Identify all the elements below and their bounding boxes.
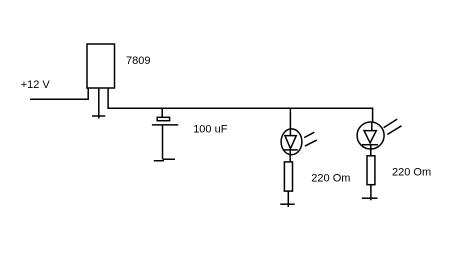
resistor R1 xyxy=(284,162,292,191)
LED D1 cathode bar xyxy=(283,149,298,151)
LED D1 light rays xyxy=(304,132,317,146)
svg-text:7809: 7809 xyxy=(126,55,150,67)
wire D1 cathode to R1 xyxy=(289,150,291,162)
wire U1 input pin 1 xyxy=(87,88,89,100)
wire capacitor C1 stub xyxy=(161,108,163,117)
voltage regulator U1 7809 body xyxy=(87,44,115,88)
ground R2 xyxy=(362,197,378,199)
svg-text:+12 V: +12 V xyxy=(21,79,51,91)
resistor R2 xyxy=(367,156,375,185)
LED D1 triangle xyxy=(285,136,296,149)
capacitor C1 negative plate xyxy=(152,124,178,126)
wire R2 to ground xyxy=(370,185,372,201)
wire R1 to ground xyxy=(287,191,289,207)
wire D2 cathode to R2 xyxy=(370,145,372,156)
LED D2 light rays xyxy=(384,119,402,134)
wire U1 ground pin 2 xyxy=(98,88,100,119)
wire LED D2 anode stub xyxy=(372,108,374,124)
wire +12V input xyxy=(30,98,89,100)
wire +9V bus xyxy=(107,107,372,109)
wire U1 output pin 3 xyxy=(107,88,109,108)
svg-text:220 Om: 220 Om xyxy=(392,166,431,178)
LED D1 circle xyxy=(281,129,302,155)
LED D2 circle xyxy=(357,122,384,149)
LED D2 triangle xyxy=(364,131,376,143)
ground regulator xyxy=(92,115,105,117)
svg-text:220 Om: 220 Om xyxy=(311,173,350,185)
wire C1 to ground xyxy=(162,125,164,159)
svg-text:100 uF: 100 uF xyxy=(193,124,228,136)
capacitor C1 positive plate xyxy=(157,117,169,120)
wire LED D1 anode stub xyxy=(289,108,291,135)
ground R1 xyxy=(280,203,294,205)
LED D2 cathode bar xyxy=(362,144,378,146)
ground capacitor xyxy=(154,159,175,161)
LED D2 inner anode wire xyxy=(371,123,373,131)
